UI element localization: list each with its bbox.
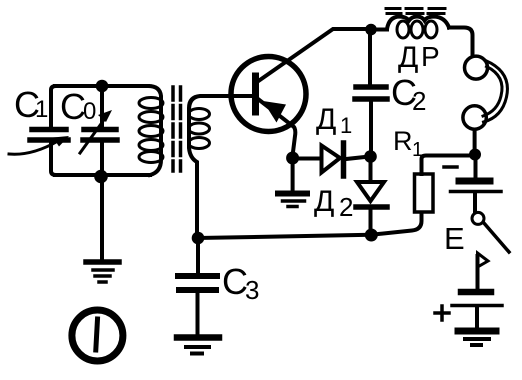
minus label	[444, 165, 457, 169]
svg-text:1: 1	[412, 139, 423, 161]
battery GB1 upper cell	[474, 160, 478, 177]
capacitor C1 plates	[30, 130, 68, 141]
capacitor C1 lower lead	[51, 143, 56, 175]
wire: cell to switch	[473, 195, 477, 212]
ground (emitter)	[278, 191, 307, 197]
svg-text:1: 1	[35, 96, 48, 123]
wire: cell to ground	[475, 308, 479, 327]
svg-text:Д: Д	[314, 185, 334, 218]
wire: phones bottom lead	[473, 130, 477, 150]
ground (C3)	[177, 334, 219, 341]
capacitor C2 plates	[355, 87, 387, 99]
battery GB1 lower cell	[461, 289, 491, 296]
figure number 1	[72, 310, 123, 361]
plus label	[435, 306, 449, 320]
wire: C2 to D-junction	[369, 102, 373, 150]
capacitor C3 upper lead	[196, 244, 200, 272]
node: tank top junction	[96, 80, 109, 93]
svg-text:2: 2	[412, 86, 426, 116]
headphones BF1	[465, 56, 488, 79]
resistor R1	[415, 174, 434, 212]
transistor collector lead	[257, 29, 366, 82]
svg-text:R: R	[393, 126, 413, 156]
capacitor C0 lower lead	[100, 143, 104, 171]
wire: tank to ground	[100, 183, 104, 258]
capacitor C1 branch upper lead	[51, 86, 56, 126]
node: D1/D2/C2 junction	[364, 150, 377, 163]
node: emitter junction	[286, 152, 299, 165]
capacitor C0 variable arrow	[80, 117, 106, 153]
wire: emitter node to D1	[299, 157, 320, 161]
diode D1	[322, 146, 341, 173]
wire: top node to C2	[368, 35, 372, 84]
wire: tank top rail	[55, 84, 148, 88]
node: tank bottom junction	[94, 170, 108, 184]
wire: base lead	[204, 94, 251, 98]
ground (tank)	[86, 259, 119, 265]
svg-text:Д: Д	[398, 41, 418, 74]
transistor V1	[231, 57, 306, 132]
node: top collector junction	[365, 24, 377, 36]
svg-text:0: 0	[83, 98, 96, 125]
svg-text:Е: Е	[444, 221, 465, 256]
svg-text:3: 3	[245, 275, 259, 305]
wire: junction to D2	[369, 162, 373, 181]
transformer core	[173, 87, 181, 171]
capacitor C0 plates	[83, 130, 117, 141]
node: D2 / rail junction	[365, 229, 378, 242]
wire: bottom rail	[198, 212, 422, 238]
transistor base bar	[252, 76, 259, 112]
capacitor C1 variable curved arrow	[9, 141, 58, 154]
capacitor C0 upper lead	[100, 92, 104, 126]
inductor Dr choke	[377, 28, 387, 32]
transistor emitter lead with arrow	[258, 99, 295, 152]
inductor L2 secondary winding	[189, 96, 250, 108]
choke core dashed lines	[386, 9, 445, 14]
node: C3 / rail junction	[192, 232, 205, 245]
wire: R1 top lead	[422, 156, 469, 175]
svg-text:1: 1	[340, 113, 352, 138]
svg-text:Р: Р	[421, 41, 440, 72]
ground (battery)	[458, 328, 496, 335]
diode D2	[357, 182, 384, 201]
wire: tank bottom rail	[55, 173, 150, 177]
node: battery top junction	[469, 149, 481, 161]
switch lower contact flag	[478, 253, 489, 267]
capacitor C3 plates	[178, 276, 217, 290]
wire: emitter to ground	[291, 164, 295, 191]
svg-text:2: 2	[339, 192, 353, 222]
switch SA1	[472, 212, 484, 224]
inductor L1 primary winding	[148, 86, 161, 175]
capacitor C3 lower lead	[196, 293, 200, 334]
svg-text:Д: Д	[316, 103, 336, 136]
